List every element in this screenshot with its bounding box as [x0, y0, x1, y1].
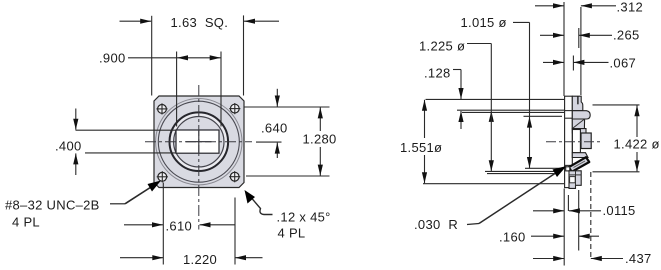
- center keyway rectangle: [176, 130, 219, 153]
- bore circle inner: [174, 117, 224, 167]
- svg-text:#8–32 UNC–2B: #8–32 UNC–2B: [5, 198, 100, 213]
- svg-text:.312: .312: [617, 0, 644, 15]
- dimension 1.551 dia: [422, 100, 427, 184]
- svg-text:.265: .265: [613, 28, 640, 43]
- side view top tier2: [572, 111, 590, 119]
- right view: extension line D (1.551 bottom): [423, 183, 564, 185]
- bottom extension line v4 dashed (.437): [590, 172, 592, 259]
- right view: extension line E (1.225 bottom): [485, 170, 559, 172]
- svg-text:1.225 ø: 1.225 ø: [419, 39, 465, 54]
- svg-text:.128: .128: [424, 66, 451, 81]
- svg-text:.0115: .0115: [603, 203, 636, 218]
- svg-text:.160: .160: [499, 230, 526, 245]
- svg-text:.437: .437: [625, 251, 652, 266]
- svg-text:1.551ø: 1.551ø: [400, 140, 442, 155]
- svg-text:1.280: 1.280: [303, 132, 337, 147]
- side view bottom block: [569, 171, 581, 189]
- plate back extension line (.067): [572, 56, 574, 71]
- svg-text:.640: .640: [261, 121, 288, 136]
- dimension .610: [124, 183, 235, 265]
- boss circle outer: [156, 99, 242, 185]
- dimension 1.225 dia leader: [467, 44, 494, 172]
- side view top tier1: [572, 96, 583, 111]
- rear step extension line (.265): [578, 28, 580, 48]
- svg-text:4 PL: 4 PL: [278, 226, 306, 241]
- bore white ring: [172, 114, 227, 169]
- screw hole top-left: [156, 103, 167, 114]
- dimension 1.220: [120, 255, 263, 260]
- dimension .067: [543, 60, 609, 65]
- right view: extension line B2: [462, 111, 564, 113]
- screw hole bottom-right: [229, 171, 240, 182]
- svg-text:.030 R: .030 R: [414, 217, 458, 232]
- side view horizontal centerline: [546, 141, 602, 143]
- svg-text:1.63 SQ.: 1.63 SQ.: [171, 15, 229, 30]
- dimension .0115: [533, 208, 601, 213]
- bottom extension line v2 (.0115): [567, 195, 569, 211]
- screw hole top-right: [229, 103, 240, 114]
- flange square body: [154, 96, 244, 188]
- side view wing left notch: [566, 167, 570, 171]
- svg-text:4 PL: 4 PL: [12, 215, 40, 230]
- side view rear bushing: [581, 133, 591, 149]
- right view: extension line B (1.225 top): [457, 109, 564, 111]
- dimension .437: [533, 256, 623, 261]
- dimension 1.280: [246, 107, 330, 176]
- right view: extension line A (1.551 top): [426, 98, 565, 100]
- front face extension line top: [563, 2, 565, 96]
- svg-text:.12 x 45°: .12 x 45°: [277, 210, 331, 225]
- dimension .312: [535, 3, 616, 8]
- svg-text:1.015 ø: 1.015 ø: [461, 15, 507, 30]
- side view top neck: [572, 129, 586, 133]
- leader .030 R: [467, 166, 567, 225]
- dimension .900: [128, 52, 221, 127]
- boss circle second: [158, 101, 239, 182]
- dimension 1.015 dia leader: [513, 22, 532, 168]
- svg-text:1.422 ø: 1.422 ø: [614, 137, 660, 152]
- dimension .640: [244, 89, 330, 158]
- svg-text:.067: .067: [610, 56, 637, 71]
- rear step extension line (.312): [580, 7, 582, 95]
- leader #8-32: [110, 181, 161, 204]
- bottom extension line v3 (.160): [578, 190, 580, 251]
- bottom extension line v1 (front face): [563, 189, 565, 266]
- dimension 1.63 SQ.: [120, 15, 280, 95]
- screw hole bottom-left: [157, 171, 168, 182]
- side view top tier3: [572, 119, 584, 129]
- bore circle thick: [170, 112, 229, 171]
- dimension .265: [540, 33, 612, 38]
- horizontal centerline left view: [145, 141, 252, 143]
- right view: extension line E2: [487, 173, 556, 175]
- svg-text:.400: .400: [55, 139, 82, 154]
- right view: extension line C (1.015 top): [524, 115, 563, 117]
- center mark cross: [186, 130, 212, 153]
- svg-text:.900: .900: [99, 51, 126, 66]
- side view bore window: [572, 130, 580, 153]
- side view bottom transition: [572, 153, 588, 158]
- dimension .128: [453, 70, 464, 130]
- dimension .400: [73, 109, 176, 176]
- side view flange plate: [565, 96, 573, 187]
- dimension .160: [531, 234, 599, 239]
- vertical centerline left view: [198, 85, 200, 230]
- leader .12 x 45: [245, 190, 273, 215]
- svg-text:1.220: 1.220: [183, 252, 217, 267]
- dimension 1.422 dia: [593, 105, 640, 172]
- side view bottom wing bar: [569, 157, 590, 172]
- right view: extension line F (1.015 bottom): [525, 167, 561, 169]
- svg-text:.610: .610: [166, 219, 193, 234]
